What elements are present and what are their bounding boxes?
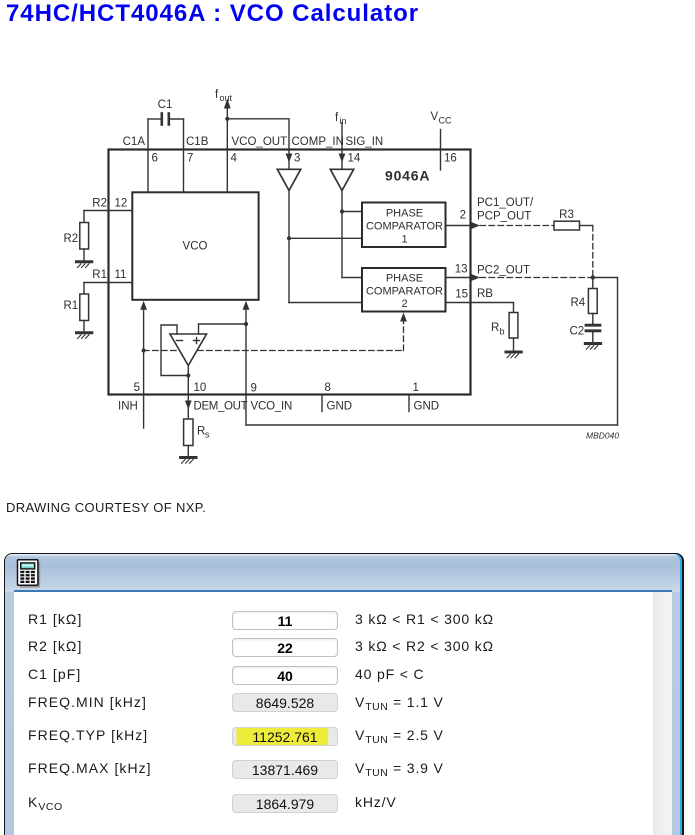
wire VCO_IN pin 9 vertical bbox=[245, 308, 247, 425]
arrowhead DEM_OUT down bbox=[185, 401, 192, 410]
svg-text:PHASE: PHASE bbox=[386, 208, 423, 220]
wire R3 to corner bbox=[580, 225, 593, 227]
svg-text:12: 12 bbox=[115, 197, 128, 209]
svg-text:11: 11 bbox=[115, 269, 127, 281]
svg-text:1: 1 bbox=[401, 234, 407, 246]
GND pin 8 stub bbox=[321, 395, 323, 412]
wire fin pin 14 vertical bbox=[341, 123, 343, 170]
wire sig to PC1 upper input bbox=[342, 211, 362, 213]
arrowhead into PC2 bottom bbox=[400, 313, 407, 322]
input boxes bbox=[232, 611, 337, 630]
svg-text:f: f bbox=[215, 89, 219, 101]
calculator panel bbox=[4, 553, 684, 835]
wire pin 11 to VCO bbox=[84, 282, 132, 284]
ground below R2 bbox=[77, 262, 92, 268]
wire sig buffer output down bbox=[341, 191, 343, 278]
svg-text:7: 7 bbox=[187, 153, 193, 165]
svg-text:b: b bbox=[500, 327, 505, 337]
svg-text:VCO_IN: VCO_IN bbox=[251, 401, 293, 413]
node sig to PC1 junction bbox=[340, 209, 344, 213]
svg-text:COMP_IN: COMP_IN bbox=[292, 136, 344, 148]
svg-text:C2: C2 bbox=[570, 326, 585, 338]
svg-text:5: 5 bbox=[134, 382, 140, 394]
node dashed start on INH line bbox=[142, 348, 146, 352]
wire op-amp plus input bbox=[199, 324, 247, 334]
arrowhead into COMP_IN buffer bbox=[286, 154, 293, 163]
ground below C2 bbox=[585, 344, 600, 350]
svg-text:6: 6 bbox=[152, 153, 158, 165]
wire C1B pin 7 vertical bbox=[183, 119, 185, 192]
svg-text:15: 15 bbox=[455, 289, 468, 301]
svg-text:SIG_IN: SIG_IN bbox=[346, 136, 384, 148]
buffer amplifier COMP_IN bbox=[277, 169, 300, 190]
svg-text:C1B: C1B bbox=[186, 136, 209, 148]
resistor R1 bbox=[83, 283, 85, 295]
node comp to PC1 junction bbox=[287, 236, 291, 240]
svg-text:R1: R1 bbox=[64, 300, 79, 312]
dashed wire pin13 to node bbox=[480, 277, 593, 279]
wire fout branch to COMP_IN bbox=[227, 119, 289, 150]
IC boundary box 9046A bbox=[109, 150, 471, 395]
svg-text:R2: R2 bbox=[64, 233, 79, 245]
ground below Rs bbox=[181, 458, 196, 464]
wire Vcc pin 16 bbox=[440, 130, 442, 171]
wire comp buffer stub bbox=[288, 150, 290, 170]
svg-text:PCP_OUT: PCP_OUT bbox=[477, 211, 531, 223]
ground below Rb bbox=[506, 352, 521, 358]
resistor R2 bbox=[83, 211, 85, 223]
svg-text:f: f bbox=[335, 112, 339, 124]
svg-text:INH: INH bbox=[118, 401, 138, 413]
svg-text:R3: R3 bbox=[559, 209, 574, 221]
row labels bbox=[28, 612, 82, 626]
svg-text:GND: GND bbox=[327, 401, 353, 413]
svg-text:CC: CC bbox=[439, 116, 452, 126]
arrowhead into SIG_IN buffer bbox=[339, 154, 346, 163]
wire INH pin 5 bbox=[143, 308, 145, 428]
right hint texts bbox=[355, 612, 494, 626]
svg-text:GND: GND bbox=[414, 401, 440, 413]
svg-text:2: 2 bbox=[401, 298, 407, 310]
drawing courtesy caption bbox=[6, 500, 206, 515]
capacitor C2 bbox=[586, 325, 600, 342]
phase comparator 1 box bbox=[362, 203, 446, 248]
svg-text:8: 8 bbox=[325, 382, 331, 394]
svg-text:2: 2 bbox=[460, 210, 466, 222]
resistor Rs bbox=[184, 419, 193, 446]
calculator icon bbox=[13, 559, 43, 591]
svg-text:R: R bbox=[491, 322, 499, 334]
svg-text:COMPARATOR: COMPARATOR bbox=[366, 286, 443, 298]
resistor R3 bbox=[554, 221, 580, 230]
svg-text:VCO_OUT: VCO_OUT bbox=[232, 136, 288, 148]
svg-text:3: 3 bbox=[294, 153, 300, 165]
ground below R1 bbox=[77, 333, 92, 339]
capacitor C1 bbox=[148, 114, 184, 125]
svg-text:16: 16 bbox=[444, 153, 457, 165]
dashed wire demodulator reference to PC2 bbox=[144, 350, 404, 352]
wire node to right corner bbox=[593, 277, 618, 279]
svg-text:C1: C1 bbox=[158, 99, 173, 111]
op-amp follower (demodulator) bbox=[170, 334, 207, 366]
wire RB pin 15 bbox=[446, 303, 514, 313]
GND pin 1 stub bbox=[408, 395, 410, 412]
svg-text:MBD040: MBD040 bbox=[586, 431, 619, 441]
svg-text:PC1_OUT/: PC1_OUT/ bbox=[477, 197, 534, 209]
wire PC1 output pin 2 bbox=[446, 225, 471, 227]
wire comp to PC1 lower input bbox=[289, 237, 362, 239]
arrowhead PC1_OUT bbox=[472, 222, 481, 229]
svg-text:9046A: 9046A bbox=[385, 167, 430, 183]
wire VCO_OUT pin 4 vertical with fout arrow bbox=[226, 107, 228, 192]
svg-text:in: in bbox=[340, 116, 347, 126]
svg-text:R4: R4 bbox=[571, 297, 586, 309]
node R3/R4 junction bbox=[591, 275, 595, 279]
svg-text:PHASE: PHASE bbox=[386, 273, 423, 285]
node op-amp output junction bbox=[186, 373, 190, 377]
wire pin 12 to VCO bbox=[84, 210, 132, 212]
svg-text:s: s bbox=[205, 430, 210, 440]
svg-text:13: 13 bbox=[455, 264, 468, 276]
wire DEM_OUT pin 10 bbox=[187, 366, 189, 420]
svg-text:PC2_OUT: PC2_OUT bbox=[477, 265, 530, 277]
svg-text:1: 1 bbox=[413, 382, 419, 394]
phase comparator 2 box bbox=[362, 268, 446, 312]
wire comp buffer output down bbox=[288, 191, 290, 303]
resistor Rb bbox=[509, 313, 518, 339]
wire op-amp feedback loop bbox=[161, 325, 188, 376]
wire sig to PC2 upper input bbox=[342, 277, 362, 279]
arrowhead INH into VCO bbox=[140, 301, 147, 310]
wire comp to PC2 lower input bbox=[289, 302, 362, 304]
svg-text:10: 10 bbox=[194, 382, 207, 394]
dashed wire R3 corner down bbox=[592, 226, 594, 278]
buffer amplifier SIG_IN bbox=[330, 169, 353, 190]
VCO block box bbox=[132, 192, 258, 299]
svg-text:V: V bbox=[431, 111, 439, 123]
node op-amp plus junction bbox=[244, 322, 248, 326]
page title bbox=[6, 0, 419, 28]
svg-text:R2: R2 bbox=[92, 197, 107, 209]
svg-text:out: out bbox=[220, 93, 233, 103]
svg-text:9: 9 bbox=[251, 383, 257, 395]
wire PC2 output pin 13 bbox=[446, 277, 471, 279]
node fout junction bbox=[225, 117, 229, 121]
wire right vertical down bbox=[617, 278, 619, 426]
svg-text:RB: RB bbox=[477, 288, 493, 300]
dashed wire pin2 to R3 bbox=[480, 225, 554, 227]
svg-text:DEM_OUT: DEM_OUT bbox=[194, 401, 248, 413]
arrowhead VCO_IN into VCO bbox=[243, 301, 250, 310]
svg-text:VCO: VCO bbox=[183, 241, 208, 253]
wire bottom horizontal to pin 9 bbox=[246, 424, 618, 426]
svg-text:COMPARATOR: COMPARATOR bbox=[366, 221, 443, 233]
svg-text:C1A: C1A bbox=[123, 136, 146, 148]
schematic SVG bbox=[0, 0, 695, 530]
svg-text:14: 14 bbox=[348, 153, 361, 165]
svg-text:R1: R1 bbox=[92, 269, 107, 281]
svg-text:4: 4 bbox=[231, 153, 238, 165]
op-amp minus sign bbox=[177, 340, 183, 342]
op-amp plus sign bbox=[194, 340, 200, 342]
arrowhead PC2_OUT bbox=[472, 274, 481, 281]
resistor R4 bbox=[592, 278, 594, 289]
wire C1A pin 6 vertical bbox=[147, 119, 149, 192]
